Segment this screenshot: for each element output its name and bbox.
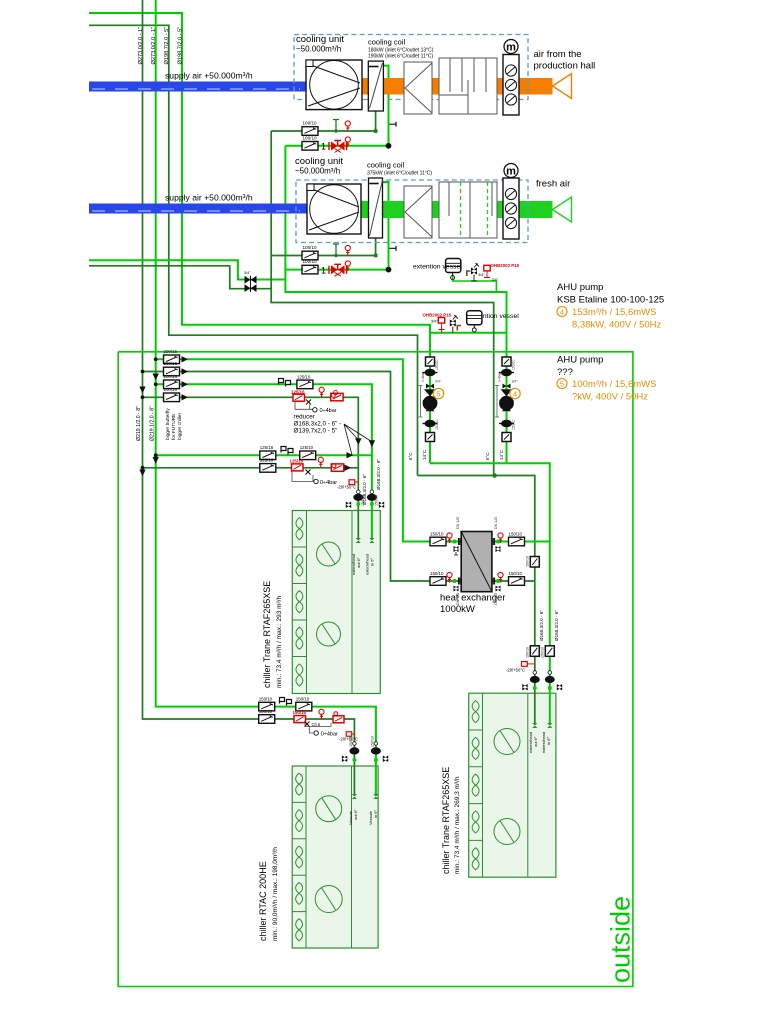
- svg-text:150/10: 150/10: [259, 697, 273, 702]
- pump assembly P5: [419, 357, 442, 442]
- svg-text:supply air +50.000m³/h: supply air +50.000m³/h: [165, 193, 253, 203]
- reducer note: [294, 414, 376, 456]
- damper 1: [503, 55, 519, 116]
- wire row4 dark to chiller1 left port: [143, 397, 359, 511]
- wire row3 bright to chiller1 right port: [156, 384, 372, 511]
- svg-text:extention vessel: extention vessel: [413, 264, 462, 271]
- safety valve cluster 1: [467, 271, 471, 276]
- chiller 1 box: [262, 511, 380, 694]
- wire L2 dark return to pump5: [89, 25, 418, 475]
- blue bar supply air 1: [89, 82, 306, 92]
- wire dark manifold to chiller2: [418, 476, 535, 694]
- thermometer: [319, 709, 324, 719]
- svg-text:chiller Trane RTAF265XSE: chiller Trane RTAF265XSE: [441, 767, 451, 874]
- valve 150/10 chiller2 left port: [530, 646, 539, 657]
- svg-text:150/10: 150/10: [430, 571, 444, 576]
- dashed enclosure 2: [296, 180, 528, 243]
- butterfly valves chiller2 ports: [530, 676, 540, 683]
- svg-text:OHB2002 P16: OHB2002 P16: [423, 313, 452, 318]
- svg-text:Ø219.1/2.0 - 8": Ø219.1/2.0 - 8": [150, 406, 156, 441]
- flow arrow header bright low: [153, 457, 159, 464]
- wire unit1 bright row: [285, 145, 388, 147]
- svg-text:3/4": 3/4": [435, 380, 442, 384]
- svg-text:out 6°: out 6°: [533, 736, 538, 747]
- svg-text:150/10: 150/10: [541, 647, 545, 658]
- bypass bracket + gauge 0-4bar: [292, 472, 313, 482]
- svg-text:out 6°: out 6°: [356, 557, 361, 568]
- valve 150/10 RTAC supply: [259, 702, 275, 711]
- wire L5 bright to mixing valve: [89, 260, 285, 279]
- svg-text:3/4": 3/4": [244, 271, 251, 275]
- control valve V1 red: [329, 141, 347, 153]
- butterfly valves RTAC ports: [349, 747, 359, 754]
- svg-text:200/16: 200/16: [164, 361, 178, 366]
- blue bar supply air 2: [89, 204, 307, 214]
- junction square unit1: [374, 129, 378, 133]
- svg-text:cooling coil: cooling coil: [368, 38, 405, 47]
- vent circles chiller1 ports: [357, 490, 361, 494]
- wire L6 dark to mixing valve: [89, 266, 271, 289]
- svg-text:0-4bar: 0-4bar: [421, 371, 425, 382]
- svg-text:0÷4bar: 0÷4bar: [320, 480, 337, 486]
- svg-text:Ø139,7x2,0 - 5": Ø139,7x2,0 - 5": [294, 428, 338, 435]
- svg-text:min.: 90,0m³/h / max.: 198,0m³: min.: 90,0m³/h / max.: 198,0m³/h: [272, 847, 279, 941]
- unit2 piping components: [302, 244, 396, 276]
- chiller1 top port fittings: [337, 480, 384, 575]
- motor m 2: [504, 164, 518, 178]
- svg-text:out 6°: out 6°: [353, 809, 358, 820]
- svg-text:3/4": 3/4": [478, 273, 485, 277]
- orange duct band: [362, 78, 553, 95]
- junction square unit2: [374, 254, 378, 258]
- svg-text:Ø198.7/2.0 - 5": Ø198.7/2.0 - 5": [164, 27, 170, 65]
- svg-text:100/10: 100/10: [303, 245, 317, 250]
- cooling unit 2 group: [295, 156, 572, 243]
- wire chiller2 internal ports: [534, 693, 536, 725]
- svg-text:150/10: 150/10: [296, 697, 310, 702]
- chamber section 1: [439, 58, 497, 114]
- duct outlet cone orange: [553, 74, 572, 99]
- wire chiller1 dark row: [143, 467, 359, 469]
- isolation valve box top: [426, 357, 435, 366]
- wire unit1 dark row: [271, 130, 375, 132]
- svg-text:3/4": 3/4": [431, 320, 438, 324]
- svg-text:200/16: 200/16: [164, 387, 178, 392]
- drain red: [346, 732, 352, 736]
- svg-text:DN 125: DN 125: [456, 517, 460, 529]
- svg-text:100/10: 100/10: [303, 136, 317, 141]
- entry rows valves and arrows: [136, 349, 188, 476]
- control valve V2 red: [329, 264, 347, 276]
- node dots RTAC ports: [352, 758, 356, 762]
- isolation valve box bottom: [426, 433, 435, 442]
- vent circles RTAC ports: [353, 742, 357, 746]
- chamber section 2: [439, 182, 497, 238]
- row3 instruments: [279, 374, 313, 388]
- svg-text:5: 5: [436, 389, 440, 398]
- node dots chiller2 ports: [533, 686, 537, 690]
- pump body: [424, 389, 436, 396]
- svg-text:150/10: 150/10: [371, 736, 375, 747]
- svg-text:Ø168.3/2.0 - 6": Ø168.3/2.0 - 6": [554, 610, 559, 641]
- svg-text:150/10: 150/10: [430, 531, 444, 536]
- extension vessel 1: [413, 259, 520, 283]
- wire coil1 bright drop: [382, 66, 389, 146]
- misc pipe labels: [362, 459, 381, 505]
- svg-text:100/10: 100/10: [303, 259, 317, 264]
- svg-text:1: 1: [321, 142, 326, 152]
- outside boundary box: [118, 352, 633, 987]
- wire unit1 bright vertical down to pump4 feed: [285, 146, 506, 463]
- wire unit2 bright row: [285, 269, 388, 271]
- thermometer T2: [345, 137, 350, 147]
- wire chiller1 internal ports: [357, 511, 359, 540]
- svg-text:~50.000m³/h: ~50.000m³/h: [295, 167, 340, 176]
- ball valve top: [423, 369, 438, 377]
- svg-text:14°C: 14°C: [422, 449, 427, 460]
- wire HX right bottom tee: [492, 580, 535, 582]
- valve 100/10 unit2 bright row: [302, 265, 318, 274]
- svg-text:150/10: 150/10: [526, 647, 530, 658]
- svg-text:4: 4: [560, 308, 564, 317]
- wire row1 bright to heat exchanger top-left: [156, 359, 462, 541]
- valve 200/16 row1: [164, 355, 180, 364]
- svg-text:14°C: 14°C: [499, 449, 504, 460]
- Ch.5 bracket: [305, 723, 331, 727]
- svg-text:-20/+50°C: -20/+50°C: [337, 484, 356, 489]
- valve 100/10 unit2 dark row: [302, 251, 318, 260]
- valve 150/10 RTAC supply 2: [296, 702, 312, 711]
- butterfly valves chiller1 ports: [353, 494, 363, 501]
- wire unit1 dark vertical down to pump4 return: [271, 131, 494, 476]
- bypass and gauge: [309, 727, 314, 734]
- chiller 2 box: [441, 693, 556, 877]
- svg-text:6°C: 6°C: [408, 452, 413, 460]
- node dots on headers: [154, 357, 158, 361]
- top bundle pipe labels: [138, 27, 184, 65]
- chiller1 feed rows instruments: [141, 445, 353, 486]
- thermometer chiller1 return: [318, 457, 323, 467]
- RTAC feed rows instruments: [259, 697, 358, 742]
- svg-text:fresh air: fresh air: [536, 179, 570, 190]
- RTAC port fittings: [342, 736, 388, 825]
- svg-text:m: m: [506, 42, 516, 54]
- svg-text:outside: outside: [606, 896, 636, 983]
- svg-text:Ø168,3x2,0 - 6" -: Ø168,3x2,0 - 6" -: [294, 421, 342, 428]
- svg-text:375kW (inlet 6°C/outlet 11°C): 375kW (inlet 6°C/outlet 11°C): [367, 171, 432, 177]
- junction dot unit1: [386, 143, 392, 149]
- svg-text:3/4": 3/4": [512, 380, 519, 384]
- wire vessel1 branch: [453, 275, 497, 292]
- svg-text:cooling unit: cooling unit: [296, 34, 344, 45]
- svg-text:0÷4bar: 0÷4bar: [320, 408, 337, 414]
- cooling coil 1: [368, 61, 383, 111]
- svg-text:150/10: 150/10: [349, 736, 353, 747]
- thermometer T4: [345, 261, 350, 271]
- wire coil2 bright drop: [382, 182, 389, 270]
- heat exchanger port fittings: [430, 517, 539, 605]
- valve 150/10 RTAC return: [259, 715, 275, 724]
- svg-text:in 6°: in 6°: [370, 558, 375, 566]
- svg-text:Ø273.0/2.0 - 1": Ø273.0/2.0 - 1": [151, 27, 157, 65]
- svg-text:0-4bar: 0-4bar: [498, 371, 502, 382]
- motor m 1: [504, 40, 518, 54]
- thermometer T1: [345, 121, 350, 131]
- pressure gauges chiller1 supply: [281, 447, 293, 455]
- wire vessel2 branch: [430, 332, 507, 334]
- wire chiller1 bright row: [156, 454, 372, 456]
- cooling unit 1 group: [294, 34, 595, 115]
- svg-text:chiller RTAC 200HE: chiller RTAC 200HE: [258, 861, 268, 941]
- extension vessel 2: [423, 311, 520, 333]
- svg-text:reducer: reducer: [294, 414, 315, 421]
- svg-text:150/10: 150/10: [375, 495, 379, 506]
- svg-text:150/10: 150/10: [259, 709, 273, 714]
- junction dot dark manifold: [492, 473, 497, 478]
- svg-text:AHU pump: AHU pump: [557, 282, 603, 293]
- cooling coil 2: [369, 178, 383, 238]
- svg-text:chiller Trane RTAF265XSE: chiller Trane RTAF265XSE: [262, 581, 272, 688]
- svg-text:???: ???: [557, 367, 573, 378]
- svg-text:125/16: 125/16: [290, 459, 304, 464]
- svg-text:m: m: [506, 166, 516, 178]
- svg-text:150/10: 150/10: [512, 420, 516, 430]
- svg-text:AHU pump: AHU pump: [557, 355, 603, 366]
- svg-text:200/16: 200/16: [164, 374, 178, 379]
- pressure gauges RTAC supply: [280, 698, 292, 706]
- thermometer T3: [345, 245, 350, 255]
- pump assembly P4: [495, 357, 518, 442]
- svg-text:190kW (inlet 6°C/outlet 11°C): 190kW (inlet 6°C/outlet 11°C): [368, 54, 433, 60]
- svg-text:150/10: 150/10: [526, 556, 530, 567]
- svg-text:100m³/h / 15,6mWS: 100m³/h / 15,6mWS: [572, 379, 656, 390]
- flow arrows to chiller1: [347, 452, 354, 458]
- wire row2 dark to heat exchanger bottom-left: [143, 372, 462, 582]
- svg-text:in 6°: in 6°: [373, 810, 378, 818]
- flow arrow header bright: [153, 374, 159, 381]
- wire coil1 dark drop: [375, 111, 377, 131]
- svg-text:for FUTURE: for FUTURE: [171, 414, 177, 440]
- vent tick unit2: [390, 246, 397, 251]
- wire L4 bright vertical to RTAC chiller: [156, 0, 376, 766]
- svg-text:100/10: 100/10: [303, 121, 317, 126]
- wire L1 bright supply from top-left to pump5 feed: [89, 13, 430, 463]
- pump number 4: [510, 388, 520, 398]
- svg-text:125/10: 125/10: [297, 374, 311, 379]
- svg-text:cooling coil: cooling coil: [367, 161, 404, 170]
- svg-text:min.: 73,4 m³/h / max.: 293 m³: min.: 73,4 m³/h / max.: 293 m³/h: [276, 596, 283, 688]
- row4 instruments: [291, 387, 343, 414]
- drain valve red chiller2: [522, 662, 528, 667]
- pump number 5: [433, 388, 443, 398]
- ball valve bottom: [423, 420, 438, 428]
- svg-text:Ch.5: Ch.5: [312, 722, 322, 727]
- svg-text:air from the: air from the: [534, 49, 582, 60]
- valve 100/10 unit1 dark row: [302, 127, 318, 136]
- svg-text:Ø273.0/2.0 - 1": Ø273.0/2.0 - 1": [138, 27, 144, 65]
- valve 100/10 unit1 bright row: [302, 142, 318, 151]
- svg-text:cooling unit: cooling unit: [295, 156, 343, 167]
- wire coil2 dark drop: [375, 238, 377, 256]
- bypass bracket: [419, 386, 423, 418]
- svg-text:DN 125: DN 125: [494, 593, 498, 605]
- svg-text:-20/+50°C: -20/+50°C: [506, 668, 525, 673]
- flow arrow header dark: [139, 387, 145, 394]
- vent stub unit2 dark row: [333, 244, 339, 256]
- green duct band: [361, 201, 553, 218]
- mixing valve X (3-way): [244, 271, 257, 292]
- wire bright manifold to chiller2: [430, 463, 550, 693]
- svg-text:production hall: production hall: [534, 61, 596, 72]
- AHU pump text block 2: [557, 355, 656, 403]
- valve 150/10 on chiller2 return drop: [530, 557, 539, 568]
- plate section 1: [404, 62, 432, 114]
- svg-text:8,38kW, 400V / 50Hz: 8,38kW, 400V / 50Hz: [572, 320, 661, 331]
- svg-text:Ø168.3/2.0 - 6": Ø168.3/2.0 - 6": [362, 474, 367, 505]
- svg-text:3/4": 3/4": [492, 278, 499, 282]
- HX right bottom fittings: [493, 578, 494, 585]
- wire L3 dark vertical to RTAC chiller: [143, 0, 355, 766]
- valve 125/16 chiller1 return: [260, 464, 276, 473]
- valve 150/10 chiller2 right port: [545, 646, 554, 657]
- svg-text:Ø219.1/2.0 - 8": Ø219.1/2.0 - 8": [136, 406, 142, 441]
- wire unit2 dark row: [271, 255, 375, 257]
- svg-text:150/10: 150/10: [435, 420, 439, 430]
- damper 2: [503, 178, 519, 239]
- plate section 2: [404, 186, 432, 238]
- svg-text:125/10: 125/10: [300, 445, 314, 450]
- AHU pump text block 1: [557, 282, 664, 331]
- valve 125/10 chiller1 supply: [300, 451, 316, 460]
- svg-text:4: 4: [513, 389, 517, 398]
- vent stub unit1 dark row: [333, 120, 339, 132]
- HX right top fittings: [493, 538, 494, 545]
- svg-text:150/10: 150/10: [435, 360, 439, 370]
- chiller2 port fittings: [506, 610, 562, 753]
- svg-text:supply air +50.000m³/h: supply air +50.000m³/h: [165, 71, 253, 81]
- svg-text:OHB2002 P16: OHB2002 P16: [491, 263, 520, 268]
- valve 200/16 row3: [164, 380, 180, 389]
- drain valve red chiller1: [349, 480, 355, 485]
- vent circles chiller2 ports: [533, 671, 537, 675]
- svg-text:6°C: 6°C: [485, 452, 490, 460]
- flow arrow header dark low: [139, 470, 145, 477]
- svg-text:~50.000m³/h: ~50.000m³/h: [296, 45, 341, 54]
- svg-text:150/16: 150/16: [293, 710, 307, 715]
- red valve 2: [333, 712, 344, 723]
- valve 200/16 row2: [164, 367, 180, 376]
- dashed enclosure: [294, 35, 528, 100]
- heat exchanger: [440, 532, 506, 616]
- svg-text:bigger butterfly: bigger butterfly: [165, 408, 171, 440]
- chiller RTAC box: [258, 766, 378, 948]
- svg-text:125/16: 125/16: [260, 458, 274, 463]
- wire HX right top tee: [492, 541, 550, 543]
- valve 200/16 row4: [164, 393, 180, 402]
- svg-text:Ø168.3/2.0 - 6": Ø168.3/2.0 - 6": [376, 459, 381, 490]
- svg-text:DN 125: DN 125: [494, 517, 498, 529]
- svg-text:5: 5: [560, 380, 564, 389]
- fan box: [306, 60, 362, 110]
- svg-text:150/10: 150/10: [509, 571, 523, 576]
- svg-text:200/16: 200/16: [164, 349, 178, 354]
- node dots chiller1 ports: [356, 502, 360, 506]
- svg-text:0÷4bar: 0÷4bar: [321, 732, 338, 738]
- svg-text:Ø168.3/2.0 - 6": Ø168.3/2.0 - 6": [539, 610, 544, 641]
- valve 125/16 chiller1 supply: [260, 451, 276, 460]
- svg-text:KSB Etaline 100-100-125: KSB Etaline 100-100-125: [557, 295, 664, 306]
- svg-text:?kW, 400V / 50Hz: ?kW, 400V / 50Hz: [572, 392, 648, 403]
- wire RTAC internal ports: [353, 766, 355, 796]
- svg-text:min.: 73,4 m³/h / max.: 269,3: min.: 73,4 m³/h / max.: 269,3 m³/h: [454, 776, 461, 874]
- svg-text:in 6°: in 6°: [546, 737, 551, 745]
- unit1 piping components: [302, 120, 396, 153]
- junction dot unit2: [386, 267, 392, 273]
- valve 150/10 HX left bottom: [430, 577, 446, 586]
- svg-text:DN 125: DN 125: [456, 593, 460, 605]
- fan box 2: [307, 184, 361, 234]
- svg-text:150/10: 150/10: [509, 531, 523, 536]
- svg-text:150/10: 150/10: [512, 360, 516, 370]
- svg-text:bigger chiller: bigger chiller: [177, 412, 183, 440]
- svg-text:1: 1: [321, 265, 326, 275]
- svg-text:Ø198.7/2.0 - 5": Ø198.7/2.0 - 5": [178, 27, 184, 65]
- check bowtie: [426, 384, 434, 389]
- valve 150/10 HX left top: [430, 537, 446, 546]
- svg-text:153m³/h / 15,6mWS: 153m³/h / 15,6mWS: [572, 307, 656, 318]
- svg-text:125/16: 125/16: [260, 445, 274, 450]
- duct cone green: [553, 197, 572, 222]
- vent tick unit1: [390, 122, 397, 127]
